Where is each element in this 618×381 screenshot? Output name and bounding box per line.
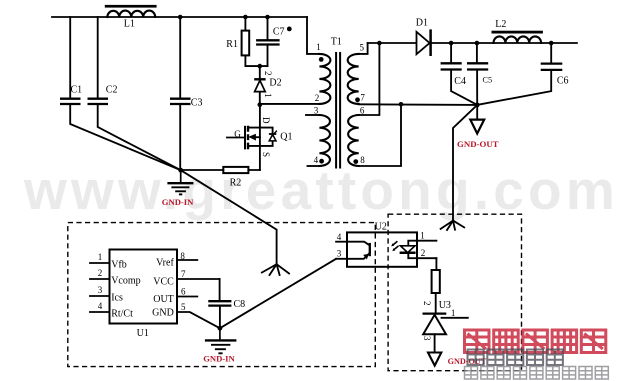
- svg-text:Ics: Ics: [111, 293, 123, 304]
- U2 phototransistor: [347, 242, 370, 246]
- inductor L2: [492, 31, 543, 34]
- U2 pin 4: [336, 241, 347, 243]
- resistor (feedback): [432, 270, 440, 293]
- watermark red CJK: [465, 330, 606, 353]
- capacitor C1: [69, 17, 71, 98]
- svg-text:2: 2: [315, 93, 320, 103]
- wire primary gnd reference diagonal: [181, 170, 277, 264]
- U1 pin 4 Rt/Ct: [90, 311, 110, 313]
- Q1 gate wire: [227, 137, 245, 139]
- svg-text:GND-IN: GND-IN: [203, 354, 235, 364]
- node C8 ground junction: [218, 326, 223, 331]
- svg-text:6: 6: [360, 106, 365, 116]
- svg-text:R1: R1: [226, 39, 238, 50]
- ground (triangle, U3): [428, 353, 441, 366]
- svg-text:L2: L2: [495, 19, 506, 30]
- svg-text:C6: C6: [557, 76, 569, 87]
- U1 pin 2 Vcomp: [90, 278, 110, 280]
- U1 pin 7 VCC: [177, 278, 220, 280]
- U2 pin 2: [417, 257, 436, 259]
- diode D2: [259, 66, 261, 105]
- svg-text:Vcomp: Vcomp: [111, 276, 140, 287]
- capacitor C5: [476, 43, 478, 63]
- Q1 body diode: [260, 128, 273, 146]
- ground GND-IN: [180, 170, 182, 183]
- wire U2 pin2 to resistor: [435, 258, 437, 270]
- svg-text:2: 2: [421, 248, 426, 258]
- U1 pin 8 Vref: [177, 259, 197, 261]
- U2 pin 3: [336, 258, 347, 260]
- capacitor C3: [179, 17, 181, 98]
- svg-text:VCC: VCC: [153, 277, 174, 288]
- node GND-IN junction: [178, 168, 183, 173]
- svg-text:1: 1: [263, 93, 273, 98]
- transformer T1 secondary winding 6-8: [348, 115, 359, 166]
- dashed box U1 controller section: [68, 223, 376, 367]
- svg-text:3: 3: [314, 106, 319, 116]
- svg-text:C4: C4: [454, 76, 466, 87]
- U1 pin 1 Vfb: [90, 262, 110, 264]
- wire rail corner to pin 1: [307, 17, 319, 54]
- U1 pin 6 OUT: [177, 296, 197, 298]
- svg-text:5: 5: [360, 42, 365, 52]
- inductor L1: [105, 5, 157, 8]
- svg-text:C1: C1: [71, 85, 83, 96]
- watermark gray CJK line1: [468, 350, 563, 366]
- wire top input rail: [52, 16, 307, 18]
- svg-text:Vfb: Vfb: [111, 260, 127, 271]
- svg-text:C3: C3: [191, 97, 203, 108]
- svg-text:U1: U1: [137, 328, 149, 339]
- svg-text:2: 2: [263, 71, 273, 76]
- svg-text:8: 8: [180, 251, 185, 261]
- svg-text:C2: C2: [106, 85, 118, 96]
- svg-text:R2: R2: [230, 178, 242, 189]
- U1 pin 3 Ics: [90, 295, 110, 297]
- wire feedback diagonal (U2 pin3 to C8 gnd): [220, 259, 336, 328]
- U1 pin 5 GND: [177, 312, 220, 328]
- capacitor C8: [219, 279, 221, 301]
- svg-text:L1: L1: [124, 18, 135, 29]
- node crow foot (secondary gnd): [441, 221, 465, 230]
- svg-text:8: 8: [360, 155, 365, 165]
- transformer core: [336, 52, 340, 169]
- op-amp U2 (optocoupler): [347, 232, 417, 266]
- transformer T1 secondary winding 5-7: [348, 54, 359, 104]
- svg-text:2: 2: [422, 301, 432, 306]
- node output ground junction: [475, 103, 480, 108]
- wire secondary return: [359, 103, 478, 106]
- svg-text:3: 3: [337, 248, 342, 258]
- transistor U3 (TL431 shunt): [423, 312, 447, 314]
- ground GND-IN (under C8): [219, 328, 221, 340]
- node: C3 tap on rail: [178, 15, 183, 20]
- svg-text:GND-IN: GND-IN: [162, 197, 194, 207]
- wire to secondary ground reference: [453, 105, 477, 221]
- capacitor C6: [550, 43, 552, 63]
- svg-text:3: 3: [98, 285, 103, 295]
- U3 pin 1 lead: [442, 317, 468, 319]
- op-amp U1 (PWM controller IC): [110, 250, 178, 324]
- svg-text:1: 1: [98, 252, 103, 262]
- wire R1-C7 bottom join: [245, 65, 267, 67]
- svg-text:1: 1: [420, 230, 425, 240]
- svg-text:1: 1: [316, 42, 321, 52]
- capacitor C7: [267, 17, 269, 40]
- capacitor C2: [97, 17, 99, 98]
- capacitor C4: [450, 43, 452, 63]
- resistor R1: [244, 17, 246, 66]
- svg-text:U2: U2: [375, 221, 387, 232]
- wire resistor to U3: [435, 293, 437, 314]
- dashed box U2/U3 feedback section: [388, 214, 521, 371]
- wire pin2 to Q1 drain junction: [260, 103, 320, 105]
- svg-text:6: 6: [181, 287, 186, 297]
- svg-text:5: 5: [181, 302, 186, 312]
- svg-text:D1: D1: [416, 18, 428, 29]
- svg-text:7: 7: [181, 269, 186, 279]
- U2 LED: [408, 241, 417, 246]
- svg-text:C5: C5: [483, 76, 493, 85]
- node R1 rail: [243, 15, 248, 20]
- wire output rail: [368, 42, 577, 44]
- ground GND-OUT symbol: [476, 105, 478, 119]
- T1 pin 5 wire up to D1 rail: [359, 43, 368, 54]
- svg-text:C8: C8: [234, 299, 246, 310]
- svg-text:3: 3: [422, 336, 432, 341]
- transformer T1 primary winding 1-2: [319, 54, 330, 104]
- U2 pin 1: [417, 240, 436, 242]
- svg-text:G: G: [234, 129, 241, 139]
- svg-text:Vref: Vref: [156, 258, 174, 269]
- svg-text:U3: U3: [439, 300, 451, 311]
- svg-text:Rt/Ct: Rt/Ct: [111, 309, 133, 320]
- node crow foot (primary): [262, 264, 289, 275]
- svg-text:4: 4: [98, 301, 103, 311]
- T1 pin 3 stub: [306, 114, 319, 116]
- svg-text:T1: T1: [331, 36, 342, 47]
- svg-text:Q1: Q1: [280, 132, 292, 143]
- node C7 rail: [265, 15, 270, 20]
- transistor Q1: [259, 105, 261, 170]
- C7 polarity dot: [287, 27, 292, 32]
- svg-text:7: 7: [360, 93, 365, 103]
- resistor R2: [181, 169, 260, 171]
- svg-text:www.greattong.com: www.greattong.com: [23, 159, 618, 221]
- transformer T1 unused winding 3-4: [319, 115, 330, 166]
- svg-text:D: D: [261, 117, 271, 124]
- svg-text:4: 4: [337, 232, 342, 242]
- svg-text:D2: D2: [269, 77, 281, 88]
- wire pin 6 riser to rail: [359, 43, 380, 115]
- svg-text:4: 4: [314, 155, 319, 165]
- node D2 anode junction: [258, 102, 263, 107]
- svg-text:OUT: OUT: [153, 294, 174, 305]
- diode D1: [417, 32, 430, 54]
- svg-text:S: S: [261, 152, 271, 157]
- svg-text:1: 1: [451, 308, 456, 318]
- svg-text:GND-OUT: GND-OUT: [457, 139, 499, 149]
- U2 LED light arrows: [393, 241, 397, 245]
- wire U3 to ground: [434, 334, 436, 352]
- watermark gray CJK line2: [465, 367, 609, 380]
- wire pin 8 riser: [359, 104, 401, 166]
- svg-text:2: 2: [98, 268, 103, 278]
- svg-text:GND: GND: [152, 308, 174, 319]
- T1 pin 4 stub: [308, 165, 320, 167]
- svg-text:C7: C7: [273, 26, 285, 37]
